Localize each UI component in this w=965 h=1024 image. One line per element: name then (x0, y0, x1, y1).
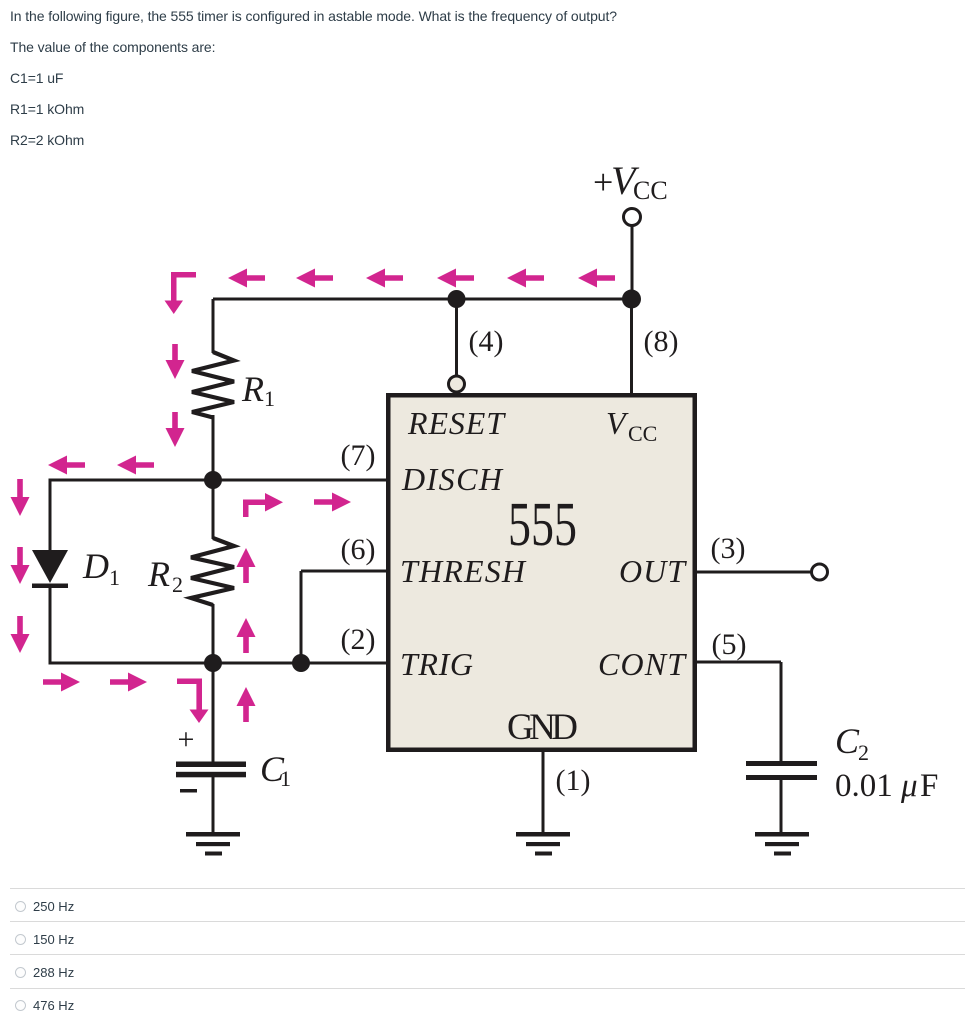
svg-text:R: R (241, 369, 264, 409)
node junction dot top rail / Vcc branch (622, 290, 641, 309)
IC pin name Vcc (606, 405, 657, 446)
svg-text:C: C (835, 721, 860, 761)
wire R2 to trigger node (212, 604, 215, 663)
current arrow bottom row right 1 (43, 673, 80, 692)
label R2 (147, 554, 183, 597)
svg-text:F: F (920, 768, 938, 804)
question line 1 (10, 9, 617, 24)
value label C1 (10, 71, 63, 86)
svg-text:(5): (5) (712, 628, 747, 661)
svg-text:0.01: 0.01 (835, 768, 893, 804)
svg-text:2: 2 (172, 572, 183, 597)
+Vcc terminal circle (624, 209, 641, 226)
current arrow top elbow down (165, 272, 197, 314)
wire top rail to R1 (212, 299, 215, 353)
current arrow top rail left 1 (228, 269, 265, 288)
diode D1 (32, 550, 68, 588)
current arrow R1 column down 1 (166, 344, 185, 379)
svg-text:1: 1 (109, 565, 120, 590)
resistor R2 (191, 538, 234, 605)
IC U1 555 timer body (388, 395, 695, 750)
wire R1 to discharge node (212, 415, 215, 480)
wire DISCH pin 7 (50, 479, 388, 482)
svg-text:(7): (7) (341, 439, 376, 472)
svg-text:OUT: OUT (619, 553, 687, 589)
svg-text:D: D (82, 546, 109, 586)
capacitor C2 (746, 761, 817, 780)
current arrow R1 column down 2 (166, 412, 185, 447)
svg-text:(4): (4) (469, 325, 504, 358)
wire CONT down to C2 (780, 662, 783, 761)
node junction dot discharge (204, 471, 222, 489)
value label R2 (10, 133, 84, 148)
label C1 (260, 749, 291, 791)
resistor R1 (192, 352, 234, 418)
current arrow elbow into DISCH (243, 493, 283, 517)
question line 2 (10, 40, 215, 55)
current arrow top rail left 5 (507, 269, 544, 288)
svg-text:(8): (8) (644, 325, 679, 358)
current arrow right into DISCH (314, 493, 351, 512)
current arrow top rail left 2 (296, 269, 333, 288)
svg-text:(3): (3) (711, 532, 746, 565)
option radio 288 Hz (15, 967, 26, 978)
wire THRESH vertical (300, 571, 303, 663)
svg-text:2: 2 (858, 740, 869, 765)
wire CONT pin 5 horizontal (695, 661, 781, 664)
svg-text:(2): (2) (341, 623, 376, 656)
node junction dot trigger/R2 (204, 654, 222, 672)
svg-text:CC: CC (628, 421, 657, 446)
current arrow left column down 2 (11, 547, 30, 584)
node junction dot trigger/thresh (292, 654, 310, 672)
label D1 (82, 546, 120, 590)
wire pin8 branch down (630, 299, 633, 395)
capacitor C1 (176, 762, 246, 778)
svg-text:(6): (6) (341, 533, 376, 566)
wire C2 to ground (780, 780, 783, 833)
C1 minus sign (180, 789, 197, 793)
label C2 (835, 721, 869, 765)
svg-text:CC: CC (633, 176, 668, 205)
svg-text:μ: μ (900, 768, 918, 804)
label R1 (241, 369, 275, 411)
svg-text:THRESH: THRESH (400, 553, 527, 589)
current arrow top rail left 3 (366, 269, 403, 288)
value label R1 (10, 102, 84, 117)
wire OUT pin 3 (695, 571, 812, 574)
options separator 3 (10, 954, 965, 955)
current arrow discharge row left 2 (117, 456, 154, 475)
pin 4 terminal circle (449, 376, 465, 392)
wire trigger node to C1 (212, 663, 215, 762)
svg-text:CONT: CONT (598, 646, 687, 682)
option radio 150 Hz (15, 934, 26, 945)
wire trigger rail pin 2 (50, 662, 388, 665)
OUT terminal circle (812, 564, 828, 580)
option radio 476 Hz (15, 1000, 26, 1011)
current arrow bottom elbow down (177, 679, 209, 724)
svg-text:DISCH: DISCH (401, 461, 504, 497)
wire Vcc terminal to top rail (631, 226, 634, 301)
label C2 value 0.01 uF (835, 768, 938, 804)
option radio 250 Hz (15, 901, 26, 912)
wire top rail (213, 298, 633, 301)
current arrow top rail left 4 (437, 269, 474, 288)
svg-text:RESET: RESET (407, 405, 506, 441)
svg-text:555: 555 (508, 491, 577, 559)
current arrow R2 up 2 (237, 618, 256, 653)
wire pin4 branch down (455, 299, 458, 377)
node junction dot top rail / pin4 branch (448, 290, 466, 308)
current arrow discharge row left 1 (48, 456, 85, 475)
current arrow R2 up 1 (237, 548, 256, 583)
wire left branch lower (49, 587, 52, 665)
current arrow left column down 1 (11, 479, 30, 516)
wire C1 to ground (212, 777, 215, 834)
ground under C1 (186, 832, 240, 856)
current arrow bottom row right 2 (110, 673, 147, 692)
wire left branch upper (49, 479, 52, 552)
svg-text:(1): (1) (556, 764, 591, 797)
current arrow left column down 3 (11, 616, 30, 653)
options separator 1 (10, 888, 965, 889)
svg-text:TRIG: TRIG (400, 646, 473, 682)
options separator 4 (10, 988, 965, 989)
options separator 2 (10, 921, 965, 922)
node +Vcc label (593, 158, 668, 205)
svg-text:1: 1 (280, 766, 291, 791)
wire THRESH pin 6 horizontal (301, 570, 388, 573)
svg-text:GND: GND (507, 707, 578, 748)
current arrow top rail left 6 (578, 269, 615, 288)
ground under IC (516, 832, 570, 856)
svg-text:R: R (147, 554, 170, 594)
wire discharge node to R2 (212, 480, 215, 539)
current arrow C1 up (237, 687, 256, 722)
ground under C2 (755, 832, 809, 856)
svg-text:+: + (178, 723, 195, 756)
svg-text:1: 1 (264, 386, 275, 411)
wire GND pin 1 (542, 752, 545, 833)
